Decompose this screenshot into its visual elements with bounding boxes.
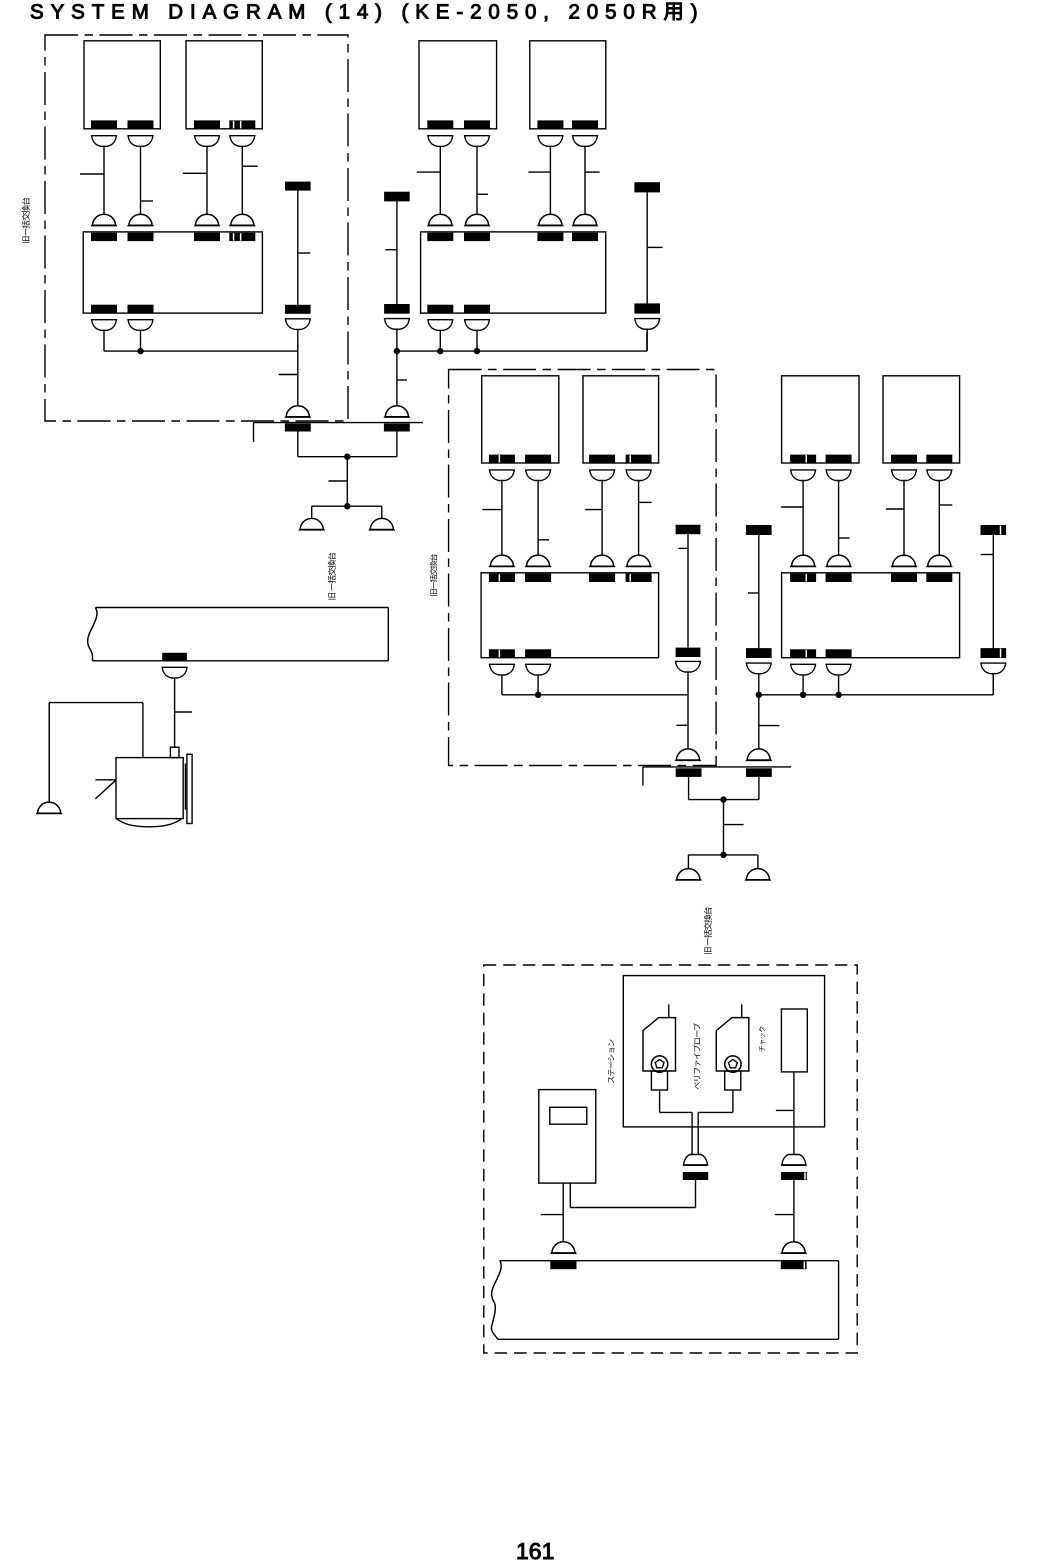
svg-text:ベリファイプローブ: ベリファイプローブ <box>693 1023 702 1090</box>
svg-text:SYSTEM DIAGRAM (14) (KE-2050,: SYSTEM DIAGRAM (14) (KE-2050, 2050R用) <box>30 0 705 23</box>
svg-text:旧ー括交換台: 旧ー括交換台 <box>21 197 31 244</box>
svg-text:旧ー括交換台: 旧ー括交換台 <box>430 554 439 597</box>
svg-text:旧 ー括交換台: 旧 ー括交換台 <box>703 907 713 955</box>
svg-text:ステーション: ステーション <box>607 1039 616 1084</box>
svg-text:旧 ー括交換台: 旧 ー括交換台 <box>327 552 337 600</box>
svg-text:チャック: チャック <box>758 1026 766 1052</box>
svg-text:161: 161 <box>516 1538 554 1564</box>
